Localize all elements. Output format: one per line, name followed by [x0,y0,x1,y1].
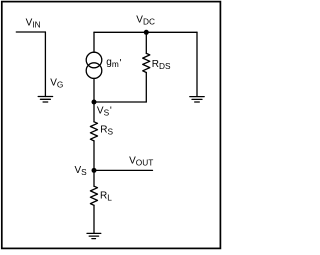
node dot V_DC [144,30,149,35]
svg-text:gm': gm' [106,57,121,69]
wire R_DS branch top [145,32,147,53]
svg-text:VS: VS [75,165,88,177]
svg-text:VS': VS' [97,105,112,117]
wire gm branch bottom [93,78,95,102]
svg-text:VG: VG [50,77,63,89]
svg-text:VDC: VDC [136,15,155,27]
ground G1 (V_G) [38,97,52,103]
node dot V_S' [92,100,97,105]
svg-text:VIN: VIN [26,18,41,30]
wire V_S' to R_S [93,102,95,122]
wire V_IN horizontal [16,31,45,33]
wire V_IN vertical to ground [44,32,46,97]
wire gm branch top [93,32,95,52]
current source gm' [86,52,102,78]
svg-text:VOUT: VOUT [129,156,153,168]
wire right branch to ground [196,32,198,96]
wire node V_S' horizontal [94,101,146,103]
wire V_OUT [94,169,153,171]
wire R_L to ground [93,205,95,233]
ground G2 (right) [190,97,204,102]
wire V_S to R_L [93,170,95,186]
resistor R_DS [143,53,150,72]
wire R_S to V_S [93,141,95,171]
wire V_DC top rail [94,31,197,33]
svg-text:RL: RL [100,191,112,203]
node dot V_S [92,168,97,173]
resistor R_S [90,122,97,141]
resistor R_L [90,186,97,205]
svg-text:RS: RS [100,125,113,137]
svg-text:RDS: RDS [152,59,171,71]
wire R_DS branch bottom [145,73,147,103]
ground G3 (bottom) [87,233,101,238]
